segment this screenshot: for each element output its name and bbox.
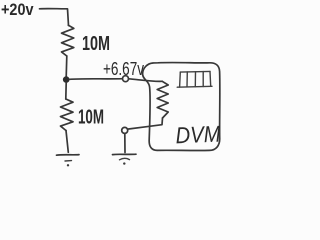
svg-text:DVM: DVM	[175, 120, 222, 148]
wire top terminal into DVM to R3	[129, 79, 163, 82]
bottom input terminal	[122, 127, 128, 133]
DVM enclosure box	[143, 63, 220, 151]
wire R3 bottom to bottom terminal	[128, 118, 163, 129]
wire R1 to node	[65, 56, 68, 77]
DVM display segments	[177, 71, 212, 87]
wire node to top terminal	[70, 78, 123, 81]
resistor R3 (DVM input resistance)	[157, 81, 168, 118]
node junction dot	[63, 76, 70, 83]
resistor R1	[62, 25, 74, 56]
ground (left)	[57, 155, 80, 167]
svg-text:10M: 10M	[78, 107, 104, 129]
ground (right)	[113, 154, 137, 165]
resistor R2	[61, 99, 74, 131]
wire bottom terminal to ground	[124, 134, 126, 153]
svg-text:+20v: +20v	[1, 1, 34, 19]
svg-text:+6.67v: +6.67v	[103, 58, 145, 79]
top input terminal	[123, 76, 129, 82]
wire from +20V to R1	[40, 9, 69, 26]
wire R2 to ground	[66, 131, 68, 153]
svg-text:10M: 10M	[82, 33, 110, 55]
wire node to R2	[65, 83, 67, 99]
